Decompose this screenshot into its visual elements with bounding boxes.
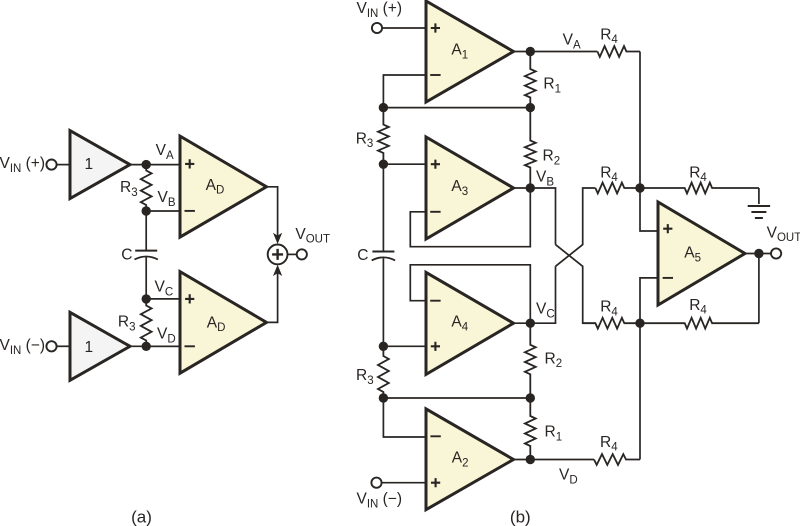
svg-text:VIN (−): VIN (−): [357, 491, 403, 511]
arrowhead into summer from bottom: [273, 265, 282, 276]
node mid2 (b): [526, 393, 535, 402]
minus input of A3: [430, 211, 440, 213]
wire: [758, 188, 760, 204]
svg-text:R2: R2: [545, 350, 563, 370]
minus input of A2: [430, 435, 440, 437]
svg-text:R3: R3: [120, 179, 138, 199]
minus input of A1: [430, 74, 440, 76]
buffer amplifier 1 (top, circuit a): [70, 131, 130, 199]
resistor R4 (VB to A5 - node): [583, 318, 640, 329]
svg-text:R4: R4: [600, 164, 618, 184]
wire: [514, 322, 531, 324]
node mid2 left: [379, 393, 388, 402]
plus input of A2: [431, 478, 440, 487]
wire: [146, 345, 180, 347]
op-amp AD (top, circuit a): [180, 136, 267, 237]
wire: [514, 459, 595, 461]
input terminal VIN(+) of circuit (a): [46, 160, 56, 170]
minus input of top AD: [185, 210, 195, 212]
wire: [382, 482, 426, 484]
node A5 minus node: [635, 319, 644, 328]
resistor R1 (top): [525, 52, 536, 108]
op-amp A5: [658, 202, 745, 305]
minus input of A4: [430, 300, 440, 302]
feedback wire of A3: [410, 188, 530, 247]
plus input of A3: [431, 160, 440, 169]
plus input of bottom AD: [185, 294, 194, 303]
wire: [145, 211, 147, 251]
svg-text:VIN (−): VIN (−): [0, 337, 45, 357]
node VD (a): [142, 342, 151, 351]
svg-text:VOUT: VOUT: [295, 226, 330, 246]
svg-text:(b): (b): [510, 507, 531, 526]
wire: [130, 345, 180, 347]
arrowhead into summer from top: [273, 233, 282, 244]
plus input of A5: [663, 224, 672, 233]
crossing wire VC to upper R4: [556, 188, 596, 266]
wire: [146, 210, 180, 212]
wire: [56, 164, 70, 166]
svg-text:VD: VD: [559, 467, 578, 487]
svg-text:R4: R4: [689, 297, 707, 317]
svg-text:R4: R4: [600, 299, 618, 319]
wire: [640, 188, 658, 231]
wire: [514, 51, 598, 53]
resistor R4 (VC to A5 + node): [595, 183, 640, 194]
svg-text:R3: R3: [356, 130, 374, 150]
node A5 plus node: [635, 183, 644, 192]
output terminal VOUT (b): [771, 248, 781, 258]
wire: [146, 298, 180, 300]
wire: [382, 27, 426, 29]
svg-text:VB: VB: [536, 169, 554, 189]
node VOUT (b): [754, 249, 763, 258]
wire: [267, 187, 278, 237]
svg-text:VA: VA: [563, 32, 581, 52]
wire: [382, 258, 384, 346]
svg-text:R2: R2: [543, 148, 561, 168]
output terminal VOUT (a): [297, 249, 307, 259]
node VD (b): [526, 455, 535, 464]
svg-text:VC: VC: [155, 279, 174, 299]
svg-text:1: 1: [84, 339, 93, 356]
node VC (a): [142, 294, 151, 303]
svg-text:R1: R1: [543, 76, 561, 96]
svg-text:R1: R1: [545, 424, 563, 444]
svg-text:C: C: [357, 247, 368, 264]
wire: [145, 257, 147, 299]
resistor R3 (bottom, circuit a): [141, 299, 152, 346]
resistor R3 (bottom, circuit b): [378, 346, 389, 398]
svg-text:VOUT: VOUT: [767, 224, 800, 244]
op-amp A2: [426, 409, 514, 510]
resistor R3 (top, circuit a): [141, 165, 152, 211]
svg-text:R4: R4: [600, 26, 618, 46]
resistor R3 (top, circuit b): [378, 108, 389, 165]
plus input of A4: [431, 342, 440, 351]
wire: [383, 75, 426, 108]
op-amp A4: [426, 272, 514, 374]
wire: [758, 254, 760, 324]
input terminal VIN(-) of circuit (b): [371, 478, 381, 488]
node VB (a): [142, 206, 151, 215]
wire: [383, 345, 426, 347]
minus input of bottom AD: [185, 345, 195, 347]
wire: [130, 164, 180, 166]
wire VB to crossing: [530, 188, 555, 245]
node on R3 chain top: [379, 103, 388, 112]
wire: [288, 253, 297, 255]
node on R3 chain bottom: [379, 342, 388, 351]
plus input of top AD: [185, 159, 194, 168]
wire: [383, 163, 426, 165]
svg-text:VB: VB: [158, 189, 176, 209]
resistor R2 (top): [525, 108, 536, 188]
minus input of A5: [663, 277, 673, 279]
svg-text:VA: VA: [156, 142, 174, 162]
svg-text:VC: VC: [536, 301, 555, 321]
svg-text:R4: R4: [600, 434, 618, 454]
ground symbol: [748, 206, 770, 218]
node VA (b): [526, 47, 535, 56]
node mid1 (b): [526, 103, 535, 112]
wire: [383, 107, 530, 109]
plus input of A1: [431, 23, 440, 32]
svg-text:1: 1: [84, 156, 93, 173]
wire VC to crossing: [530, 266, 555, 323]
summing junction (circuit a): [268, 245, 288, 265]
node A3 plus input node: [379, 160, 388, 169]
svg-text:R4: R4: [689, 164, 707, 184]
wire: [514, 187, 531, 189]
op-amp A1: [426, 1, 514, 102]
op-amp AD (bottom, circuit a): [180, 272, 267, 374]
wire: [745, 253, 771, 255]
wire: [383, 398, 426, 437]
svg-text:VD: VD: [157, 326, 176, 346]
wire: [56, 345, 70, 347]
wire: [267, 273, 278, 323]
wire: [639, 323, 641, 459]
svg-text:VIN (+): VIN (+): [357, 0, 403, 20]
resistor R4 (A5 + node to ground): [640, 183, 759, 194]
wire: [640, 278, 658, 323]
svg-text:R3: R3: [356, 367, 374, 387]
svg-text:C: C: [121, 246, 132, 263]
wire: [383, 397, 530, 399]
input terminal VIN(+) of circuit (b): [372, 23, 382, 33]
capacitor C (circuit a): [135, 250, 157, 252]
wire: [382, 164, 384, 251]
svg-text:(a): (a): [131, 507, 152, 526]
crossing wire VB to lower R4: [556, 245, 596, 324]
wire: [639, 52, 641, 189]
svg-text:VIN (+): VIN (+): [0, 155, 45, 175]
input terminal VIN(-) of circuit (a): [46, 341, 56, 351]
node VA (a): [142, 160, 151, 169]
node VC (b): [526, 319, 535, 328]
plus sign in summing junction: [272, 249, 283, 260]
capacitor C (circuit b): [372, 251, 394, 253]
feedback wire of A4: [410, 265, 530, 323]
op-amp A3: [426, 137, 514, 239]
buffer amplifier 1 (bottom, circuit a): [70, 312, 130, 380]
node VB (b): [526, 183, 535, 192]
svg-text:R3: R3: [118, 314, 136, 334]
resistor R2 (bottom): [525, 323, 536, 398]
resistor R4 (VA to A5 + node): [597, 46, 640, 57]
resistor R4 (VD to A5 - node): [594, 454, 640, 465]
resistor R1 (bottom): [525, 398, 536, 460]
resistor R4 (A5 feedback): [640, 318, 759, 329]
